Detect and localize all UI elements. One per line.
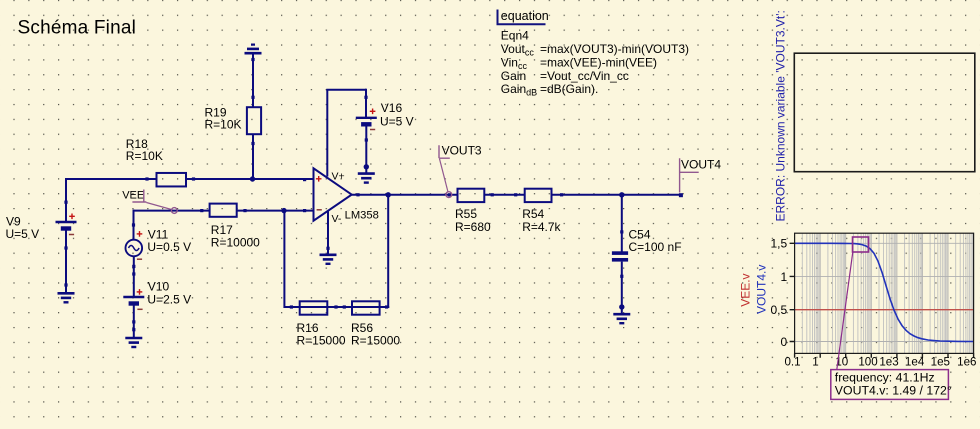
wire V9 branch	[64, 178, 67, 221]
svg-text:VEE.v: VEE.v	[739, 273, 753, 306]
wire R54 to VOUT4 end	[552, 193, 681, 196]
node output junction	[386, 192, 391, 197]
voltage source V9 (battery)	[6, 214, 77, 242]
plot axis name VOUT4.v (blue, vertical)	[755, 265, 769, 314]
svg-text:V-: V-	[332, 213, 342, 225]
svg-text:=max(VOUT3)-min(VOUT3): =max(VOUT3)-min(VOUT3)	[540, 42, 689, 56]
svg-text:1e5: 1e5	[931, 355, 950, 368]
error message (vertical)	[774, 10, 788, 221]
wire VEE net to R17	[133, 209, 210, 212]
resistor R18	[126, 137, 186, 186]
svg-text:V16: V16	[381, 101, 403, 115]
VOUT4.v blue curve	[795, 243, 974, 341]
plot axis name VEE.v (red, vertical)	[739, 273, 753, 306]
resistor R54	[522, 189, 561, 234]
svg-text:=dB(Gain).: =dB(Gain).	[540, 82, 598, 96]
voltage source V16 (battery)	[356, 101, 414, 130]
svg-text:VOUT4.v: VOUT4.v	[755, 265, 769, 314]
wire R17 to op-amp - input	[237, 209, 314, 212]
voltage source V10 (battery)	[123, 280, 191, 310]
label VEE	[122, 189, 171, 209]
svg-text:=max(VEE)-min(VEE): =max(VEE)-min(VEE)	[540, 55, 657, 69]
node C54 junction	[619, 192, 624, 197]
resistor R16	[297, 301, 346, 347]
node VOUT4 wire end	[679, 193, 683, 197]
label VOUT4	[680, 158, 722, 193]
equation block Eqn4	[498, 9, 690, 98]
wire R18 to op-amp + input	[186, 177, 314, 181]
svg-text:R=15000: R=15000	[297, 334, 346, 348]
svg-text:1e6: 1e6	[957, 355, 976, 368]
svg-text:VOUT4.v: 1.49 / 172°: VOUT4.v: 1.49 / 172°	[835, 384, 952, 398]
svg-text:LM358: LM358	[345, 209, 379, 221]
svg-text:0.1: 0.1	[784, 355, 800, 368]
wire V16 to ground	[364, 126, 369, 173]
resistor R56	[351, 301, 400, 347]
wire feedback vertical right	[387, 195, 389, 308]
ground under V16	[358, 174, 375, 183]
plot frame	[790, 233, 974, 358]
svg-text:=Vout_cc/Vin_cc: =Vout_cc/Vin_cc	[540, 69, 629, 83]
svg-text:V11: V11	[148, 227, 169, 241]
voltage source V11 (AC)	[126, 227, 192, 259]
VEE.v red curve (constant 0.5)	[795, 309, 974, 311]
svg-text:VOUT4: VOUT4	[681, 158, 721, 172]
ground under V10	[125, 338, 142, 347]
svg-text:V10: V10	[148, 280, 170, 294]
svg-text:C=100 nF: C=100 nF	[629, 240, 682, 254]
ground (inverted) above R19	[245, 45, 262, 54]
svg-text:U=5 V: U=5 V	[380, 115, 414, 129]
svg-text:R=680: R=680	[455, 220, 491, 234]
svg-text:VEE: VEE	[122, 189, 144, 201]
svg-text:U=0.5 V: U=0.5 V	[147, 240, 191, 254]
wire R55 to R54	[484, 193, 524, 196]
svg-text:Schéma Final: Schéma Final	[18, 17, 137, 38]
svg-text:R=4.7k: R=4.7k	[522, 220, 561, 234]
svg-text:1: 1	[812, 355, 818, 368]
svg-text:ERROR: Unknown variable 'VOUT: ERROR: Unknown variable 'VOUT3.Vt':	[774, 10, 788, 221]
ground under C54	[613, 314, 630, 323]
svg-text:R=10K: R=10K	[126, 149, 163, 163]
plot y-axis labels	[771, 237, 788, 349]
wire op-amp V- stem to ground	[326, 212, 329, 255]
node feedback/- input junction	[281, 208, 286, 213]
label VOUT3	[439, 143, 482, 192]
svg-text:1e3: 1e3	[879, 355, 898, 368]
resistor R55	[455, 189, 491, 234]
svg-text:R=10000: R=10000	[211, 235, 260, 249]
svg-text:1e4: 1e4	[905, 355, 925, 368]
svg-text:1,5: 1,5	[771, 237, 788, 251]
svg-text:0,5: 0,5	[771, 303, 788, 317]
wire V9 to ground	[64, 230, 67, 293]
svg-text:100: 100	[858, 355, 877, 368]
svg-text:R=15000: R=15000	[351, 334, 400, 348]
svg-text:equation: equation	[501, 9, 549, 23]
title "Schéma Final"	[18, 17, 137, 38]
plot gridlines (horizontal)	[795, 243, 974, 341]
resistor R17	[210, 204, 261, 250]
wire op-amp output	[352, 193, 458, 196]
wire C54 to ground	[619, 262, 624, 314]
ground under op-amp	[320, 255, 337, 264]
empty diagram rectangle	[794, 53, 975, 172]
marker tooltip box	[831, 370, 952, 400]
capacitor C54	[612, 228, 682, 262]
ground under V9	[58, 293, 75, 302]
plot gridlines (vertical, log minor)	[802, 233, 972, 353]
marker callout line	[837, 252, 853, 370]
marker box on curve	[853, 237, 869, 252]
node VEE (open circle)	[171, 208, 177, 214]
wire V9 top to R18	[65, 177, 157, 180]
wire VEE down to V11	[132, 211, 135, 240]
svg-text:U=2.5 V: U=2.5 V	[147, 293, 191, 307]
node junction R18/R19	[250, 176, 255, 181]
wire V11 to V10	[132, 256, 135, 296]
wire R19 stem top	[251, 53, 254, 107]
op-amp U1 LM358	[314, 168, 379, 225]
wire C54 branch top	[620, 195, 623, 252]
wire to V16 top	[326, 89, 367, 119]
svg-text:Gain: Gain	[501, 69, 526, 83]
node VOUT3 (open circle)	[446, 192, 452, 198]
svg-text:V+: V+	[332, 170, 345, 182]
svg-text:U=5 V: U=5 V	[6, 227, 40, 241]
wire feedback vertical left	[283, 211, 285, 308]
svg-text:0: 0	[781, 335, 788, 349]
wire op-amp V+ supply stem	[326, 90, 328, 177]
svg-text:Eqn4: Eqn4	[501, 28, 529, 42]
svg-text:R54: R54	[522, 207, 544, 221]
wire feedback bottom	[284, 305, 389, 308]
resistor R19	[205, 106, 262, 135]
svg-text:R=10K: R=10K	[205, 118, 242, 132]
svg-text:VOUT3: VOUT3	[442, 143, 482, 157]
plot x-axis labels	[784, 355, 976, 368]
wire V10 to ground	[132, 305, 135, 337]
wire R19 bottom to node	[251, 134, 254, 179]
svg-text:R55: R55	[455, 207, 477, 221]
svg-text:frequency: 41.1Hz: frequency: 41.1Hz	[835, 371, 935, 385]
svg-text:1: 1	[781, 270, 788, 284]
